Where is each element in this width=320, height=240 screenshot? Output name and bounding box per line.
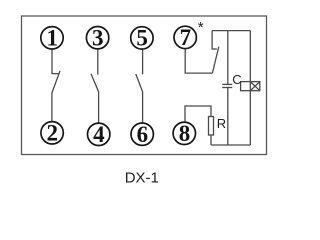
svg-text:7: 7 <box>180 25 192 50</box>
svg-text:C: C <box>232 72 241 87</box>
svg-text:*: * <box>198 19 204 36</box>
svg-text:6: 6 <box>137 122 149 147</box>
svg-text:5: 5 <box>136 26 148 51</box>
svg-text:4: 4 <box>93 122 105 147</box>
svg-text:1: 1 <box>46 25 58 50</box>
svg-text:R: R <box>217 116 226 131</box>
svg-text:3: 3 <box>92 25 104 50</box>
svg-text:DX-1: DX-1 <box>125 169 159 186</box>
svg-text:2: 2 <box>47 120 59 145</box>
svg-text:8: 8 <box>179 121 191 146</box>
